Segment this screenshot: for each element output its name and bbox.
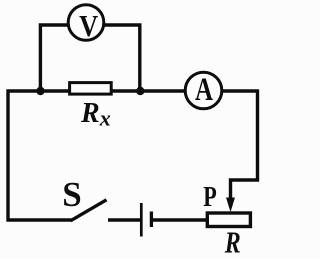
- junction node right: [136, 87, 144, 95]
- voltmeter U1 circle: [68, 5, 104, 41]
- battery long plate: [140, 203, 143, 237]
- battery short plate: [150, 212, 153, 228]
- svg-text:S: S: [62, 175, 81, 214]
- wire jog from right rail to wiper: [231, 180, 260, 204]
- ammeter U2 circle: [185, 72, 222, 109]
- wire right rail: [256, 90, 259, 182]
- switch S blade: [71, 200, 107, 221]
- wire main horizontal bus at y=91: [7, 89, 260, 92]
- svg-text:V: V: [79, 8, 99, 43]
- svg-text:P: P: [203, 181, 217, 213]
- wire left rail: [6, 90, 9, 222]
- wire battery to rheostat: [151, 218, 208, 221]
- wire voltmeter branch right: [86, 25, 140, 91]
- junction node left: [36, 87, 44, 95]
- rheostat wiper arrowhead: [226, 198, 235, 213]
- svg-text:R: R: [224, 224, 241, 259]
- rheostat R body: [207, 213, 250, 227]
- wire voltmeter branch left: [40, 25, 87, 91]
- wire switch to battery: [108, 218, 140, 221]
- svg-text:A: A: [195, 72, 213, 108]
- resistor Rx body: [70, 83, 112, 95]
- svg-text:Rx: Rx: [80, 98, 111, 131]
- wire bottom bus from left rail to switch pivot: [7, 218, 72, 221]
